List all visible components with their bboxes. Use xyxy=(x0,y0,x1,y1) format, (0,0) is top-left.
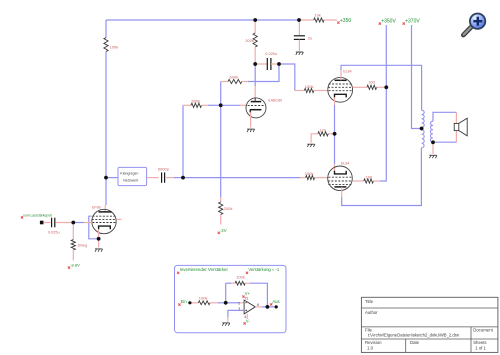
pin stub pin3 ground xyxy=(227,317,229,322)
wire +350V rail xyxy=(385,25,387,181)
node cathode junction xyxy=(333,132,337,136)
wire left rail upper xyxy=(105,20,107,38)
svg-text:100: 100 xyxy=(366,175,373,180)
wire cathode to EL84 bottom xyxy=(334,134,336,164)
node g3 cathode junction xyxy=(97,237,101,241)
transformer primary lower winding xyxy=(422,130,425,148)
svg-text:Netzwerk: Netzwerk xyxy=(123,179,138,183)
svg-text:200k: 200k xyxy=(224,206,233,211)
svg-text:Title: Title xyxy=(365,299,374,304)
svg-text:100: 100 xyxy=(368,79,375,84)
svg-text:600k: 600k xyxy=(230,74,239,79)
svg-text:Document: Document xyxy=(473,327,493,332)
magnifier zoom cursor icon xyxy=(463,14,485,36)
node summing junction xyxy=(224,301,228,305)
pin stub secondary ground xyxy=(432,142,434,154)
pin stub 2u top xyxy=(298,20,300,35)
wire left rail lower xyxy=(105,52,107,178)
wire speaker return xyxy=(433,141,456,143)
pentode tube EF86 xyxy=(92,205,116,233)
wire EF86 g3 to cathode xyxy=(89,216,99,239)
resistor 200k plate load xyxy=(245,33,257,47)
triode tube EABC80 xyxy=(246,98,282,118)
svg-text:Sheets: Sheets xyxy=(473,340,486,345)
pin stub 200k plate bottom xyxy=(254,47,256,64)
wire to Aus terminal xyxy=(267,306,276,308)
svg-text:120: 120 xyxy=(319,128,326,133)
svg-text:100k: 100k xyxy=(305,171,314,176)
capacitor 5000p coupling xyxy=(158,167,170,183)
title block text Title xyxy=(365,299,374,304)
pin stub 10k left xyxy=(299,19,314,21)
pin stub 600k left xyxy=(221,81,228,83)
pin stub EF86 g3 left xyxy=(91,215,92,217)
node input grid junction xyxy=(71,221,75,225)
svg-text:1 of 1: 1 of 1 xyxy=(475,346,486,351)
pin stub 200k bias bottom xyxy=(220,215,222,225)
pin stub EF86 g1 xyxy=(84,222,92,224)
title block text Revision xyxy=(365,340,382,351)
svg-text:vom Lautstärkepoti: vom Lautstärkepoti xyxy=(23,214,52,218)
pin stub cap 0.025u right xyxy=(271,63,279,65)
pin stub opamp Rin left xyxy=(192,302,199,304)
node top rail 200k xyxy=(253,18,257,22)
wire grid junction riser to 600k xyxy=(220,82,222,106)
svg-text:2: 2 xyxy=(238,301,240,305)
pin stub triode grid xyxy=(240,104,246,106)
pin stub 500k left xyxy=(183,104,191,106)
svg-text:200k: 200k xyxy=(245,38,254,43)
wire 500k to grid junction xyxy=(208,104,221,106)
resistor 1Meg grid leak xyxy=(71,240,87,250)
pin stub triode cathode xyxy=(250,112,252,127)
pin stub EL84 top anode xyxy=(340,70,342,80)
pin stub 100k g1 right xyxy=(314,90,328,92)
title block frame xyxy=(361,297,498,352)
pin stub cap 0.025u left xyxy=(255,63,267,65)
ground symbol triode cathode xyxy=(247,129,255,132)
ground symbol secondary xyxy=(429,155,437,158)
net label -8.8V xyxy=(68,262,80,268)
net label Verstaerkung = -1 xyxy=(246,267,280,274)
net label -2V xyxy=(218,228,227,234)
svg-text:1.0: 1.0 xyxy=(367,346,374,351)
pin stub Rf right xyxy=(245,282,250,284)
pin stub EL84 bottom anode xyxy=(341,187,343,197)
transformer secondary winding xyxy=(430,121,433,142)
title block text Author xyxy=(365,310,378,315)
node center tap xyxy=(420,127,424,131)
node junction left rail / tone box xyxy=(104,176,108,180)
title block text Document xyxy=(473,327,493,332)
node junction splitter xyxy=(181,176,185,180)
wire out to junction xyxy=(262,306,267,308)
pin stub 500k right xyxy=(202,104,209,106)
terminal Ein xyxy=(188,301,191,304)
pin stub 100 screen bottom right xyxy=(373,180,380,182)
svg-text:1Meg: 1Meg xyxy=(77,242,87,247)
node 2u filter junction xyxy=(297,18,301,22)
svg-text:5000p: 5000p xyxy=(158,167,170,172)
net label Aus xyxy=(270,299,280,306)
pin stub 100k g1b left xyxy=(300,177,306,179)
pin stub opamp out xyxy=(255,306,262,308)
pin stub input cap right xyxy=(56,222,74,224)
pin stub 1Meg top xyxy=(72,223,74,240)
svg-text:+350: +350 xyxy=(340,18,351,24)
pin stub 1Meg bottom xyxy=(72,250,74,260)
svg-text:10k: 10k xyxy=(314,13,320,18)
resistor 100k input xyxy=(198,296,210,305)
wire splitter to 100k bottom xyxy=(183,177,300,179)
op-amp U1 xyxy=(238,296,259,319)
wire EF86 anode riser xyxy=(105,178,107,205)
svg-text:Revision: Revision xyxy=(365,340,382,345)
resistor 100k left rail xyxy=(104,38,118,52)
pin stub input cap left xyxy=(43,222,50,224)
svg-text:EL84: EL84 xyxy=(343,69,351,73)
wire cap junction to EL84 grid xyxy=(279,64,295,91)
svg-text:100k: 100k xyxy=(236,274,245,279)
svg-text:100k: 100k xyxy=(110,45,119,50)
wire screen bottom to rail xyxy=(380,180,386,182)
pin stub 5000p right xyxy=(166,177,174,179)
svg-text:t:\Archiv\EigeneDateien\sketch: t:\Archiv\EigeneDateien\sketch2_doku\WB_… xyxy=(368,332,460,337)
pin stub 200k plate top xyxy=(254,20,256,33)
wire grid junction down xyxy=(220,105,222,197)
resistor 10k supply dropper xyxy=(314,13,324,23)
resistor 200k grid bias xyxy=(219,202,233,215)
pin stub box right xyxy=(147,177,159,179)
svg-text:Date: Date xyxy=(410,340,420,345)
net label Invertierender Verstaerker xyxy=(177,267,228,274)
pin stub EL84 bottom cathode xyxy=(334,164,336,171)
node triode grid junction xyxy=(219,103,223,107)
pin stub 2u bottom xyxy=(298,40,300,51)
capacitor 2u filter xyxy=(294,36,312,41)
svg-text:Verstärkung = -1: Verstärkung = -1 xyxy=(248,267,280,272)
ground symbol opamp pin3 xyxy=(222,323,230,326)
resistor 100k EL84 top grid xyxy=(304,84,313,93)
speaker LS1 xyxy=(454,118,467,136)
wire cathodes common xyxy=(334,105,336,134)
svg-text:-2V: -2V xyxy=(220,228,227,233)
pin stub EL84 top cathode xyxy=(334,97,336,105)
wire EL84 top anode to transformer xyxy=(341,65,422,110)
pin stub speaker bottom xyxy=(455,131,457,143)
svg-text:100k: 100k xyxy=(199,296,208,301)
pin stub opamp V- xyxy=(246,314,248,319)
svg-text:0.025u: 0.025u xyxy=(265,52,277,56)
wire 600k to cap junction xyxy=(248,64,279,82)
svg-text:EL84: EL84 xyxy=(341,161,349,165)
node screen top rail xyxy=(384,85,388,89)
pin stub 100k g1 left xyxy=(295,90,305,92)
svg-text:V-: V- xyxy=(246,319,251,324)
capacitor 0.025u input xyxy=(48,218,60,235)
resistor 100 screen top xyxy=(367,79,377,89)
net label Ein xyxy=(178,299,187,306)
title block text Sheets xyxy=(473,340,486,351)
wire box left lead xyxy=(106,177,118,179)
pin stub opamp V+ xyxy=(246,297,248,300)
ground symbol cathode 120 xyxy=(307,144,315,147)
title block text Date xyxy=(410,340,420,345)
net label V- supply xyxy=(244,319,251,325)
wire feedback top left xyxy=(226,282,231,284)
wire +370V rail to center tap xyxy=(412,25,422,129)
wire grid junction to triode xyxy=(221,104,240,106)
wire top rail xyxy=(106,19,299,21)
block Klangregel-Netzwerk tone network box xyxy=(118,167,147,185)
net label vom Lautstaerkepoti xyxy=(21,214,52,219)
terminal Aus xyxy=(275,305,278,308)
pin stub opamp pin2 xyxy=(239,302,244,304)
pin stub EL84 top g2 xyxy=(353,86,368,88)
pin stub 100k g1b right xyxy=(315,177,328,179)
net label +350V xyxy=(379,18,397,24)
resistor 120 cathode bias xyxy=(318,128,328,136)
svg-text:0.025u: 0.025u xyxy=(48,230,60,234)
resistor 500k triode grid xyxy=(191,99,202,108)
node output junction xyxy=(266,305,270,309)
net label V+ supply xyxy=(242,291,250,298)
wire pin3 left xyxy=(228,310,244,317)
pentode tube EL84 bottom xyxy=(328,161,353,190)
svg-text:Aus: Aus xyxy=(272,299,279,304)
pin stub EF86 anode xyxy=(104,205,106,212)
svg-text:+350V: +350V xyxy=(381,18,396,24)
svg-text:100k: 100k xyxy=(305,84,314,89)
svg-text:Ein: Ein xyxy=(181,299,188,304)
pentode tube EL84 top xyxy=(328,69,353,102)
wire summing to pin2 xyxy=(226,302,239,304)
svg-text:500k: 500k xyxy=(192,99,201,104)
node cap-feedback junction xyxy=(277,62,281,66)
svg-text:+370V: +370V xyxy=(405,18,420,24)
svg-text:-8.8V: -8.8V xyxy=(70,262,80,267)
svg-text:EF86: EF86 xyxy=(92,205,101,209)
wire triode plate riser xyxy=(254,64,256,86)
wire feedback up xyxy=(225,283,227,303)
svg-text:Klangregel-: Klangregel- xyxy=(120,172,139,176)
pin stub EL84 bottom g2 xyxy=(353,180,364,182)
ground symbol EF86 cathode xyxy=(95,249,103,252)
pin stub Rf left xyxy=(231,282,235,284)
resistor 100k feedback xyxy=(235,274,245,285)
block inverting amplifier box xyxy=(175,265,287,332)
pin stub 200k bias top xyxy=(220,197,222,202)
resistor 100 screen bottom xyxy=(364,175,374,184)
capacitor 0.025u triode coupling xyxy=(265,52,277,70)
node plate node xyxy=(253,62,257,66)
wire Rin to summing node xyxy=(218,302,226,304)
pin stub 120 left to ground xyxy=(311,134,318,143)
resistor 100k EL84 bottom grid xyxy=(305,171,315,180)
wire 5000p to node xyxy=(174,177,183,179)
wire feedback right down xyxy=(250,283,267,307)
pin stub 120 right xyxy=(328,133,334,135)
svg-text:EABC80: EABC80 xyxy=(268,98,282,102)
svg-text:7: 7 xyxy=(245,296,247,300)
svg-text:Invertierender Verstärker: Invertierender Verstärker xyxy=(180,267,229,272)
pin stub speaker top xyxy=(455,112,457,123)
wire secondary top to speaker xyxy=(433,112,456,121)
title block text File xyxy=(365,327,460,337)
wire EL84 bottom anode loop xyxy=(342,148,422,206)
pin stub 100 screen top right xyxy=(377,86,387,88)
pin stub opamp Rin right xyxy=(210,302,218,304)
pin stub EF86 g2 right xyxy=(116,218,121,220)
svg-text:V+: V+ xyxy=(245,291,251,296)
pin stub triode plate xyxy=(254,86,256,102)
pin stub 10k right xyxy=(324,19,337,21)
resistor 600k feedback xyxy=(228,74,242,83)
net label +370V xyxy=(403,18,421,24)
ground symbol 2u filter xyxy=(296,52,304,55)
transformer primary upper winding xyxy=(422,110,425,127)
pin stub 600k right xyxy=(242,81,248,83)
node secondary ground junction xyxy=(431,140,435,144)
wire splitter riser xyxy=(182,105,184,177)
net label +350 xyxy=(337,18,351,24)
wire g1 to input junction xyxy=(73,222,84,224)
terminal input xyxy=(40,221,44,225)
svg-text:2u: 2u xyxy=(308,36,312,41)
svg-text:Author: Author xyxy=(365,310,378,315)
pin stub EF86 cathode ground xyxy=(98,229,100,247)
